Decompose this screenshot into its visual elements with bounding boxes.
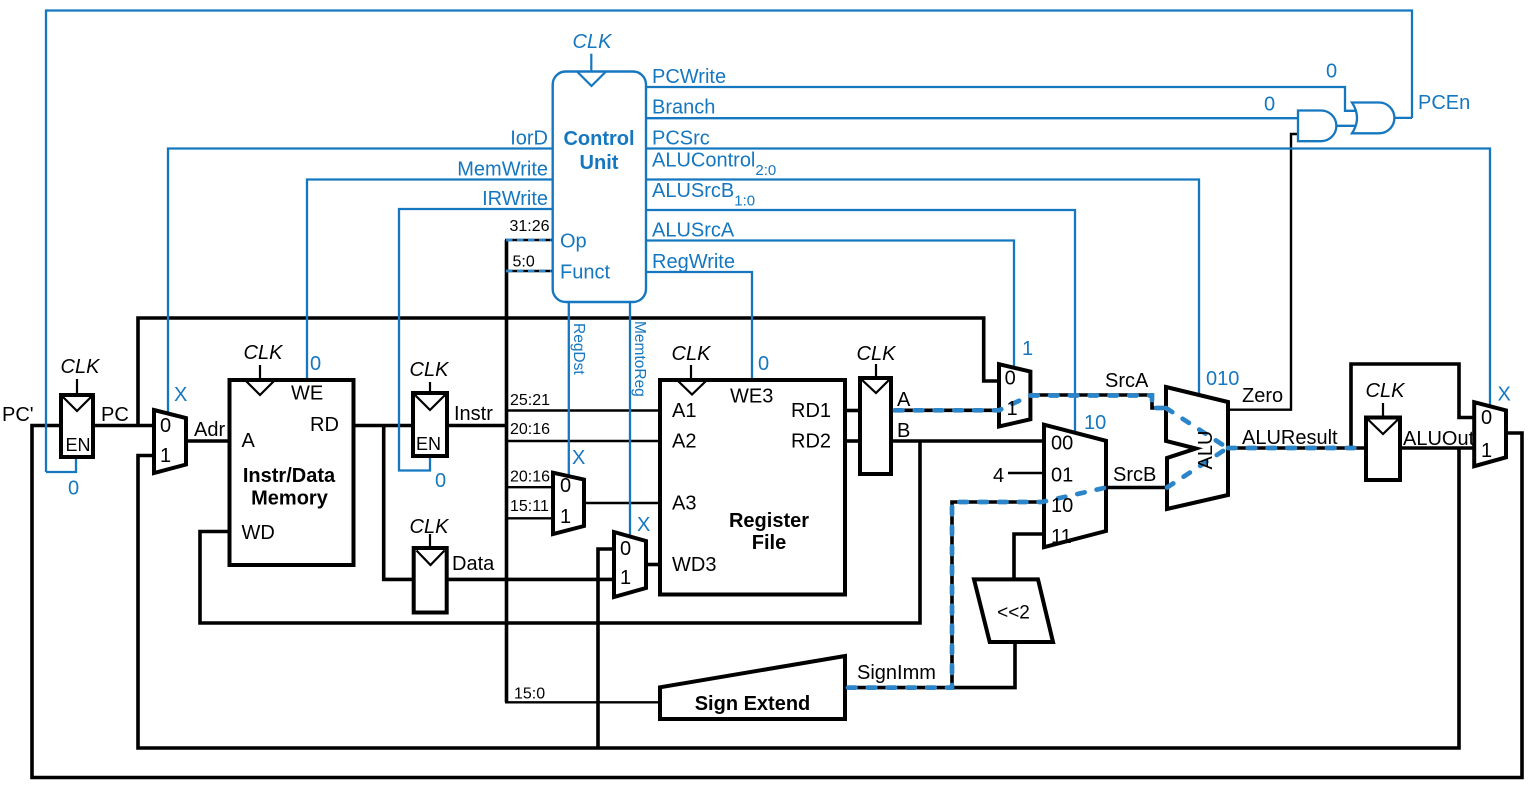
svg-text:0: 0 bbox=[310, 353, 321, 375]
svg-text:Instr/Data: Instr/Data bbox=[243, 465, 336, 487]
svg-text:Register: Register bbox=[729, 510, 809, 532]
svg-text:RD1: RD1 bbox=[791, 400, 831, 422]
svg-text:PCWrite: PCWrite bbox=[652, 66, 726, 88]
svg-text:Branch: Branch bbox=[652, 97, 715, 119]
svg-text:Memory: Memory bbox=[251, 488, 329, 510]
svg-text:CLK: CLK bbox=[573, 31, 614, 53]
svg-text:1: 1 bbox=[560, 506, 571, 528]
svg-text:X: X bbox=[1498, 384, 1511, 406]
svg-text:PCEn: PCEn bbox=[1418, 92, 1470, 114]
svg-text:A2: A2 bbox=[672, 431, 696, 453]
svg-text:1: 1 bbox=[1481, 440, 1492, 462]
svg-text:Control: Control bbox=[563, 128, 634, 150]
svg-text:SignImm: SignImm bbox=[857, 662, 936, 684]
svg-text:20:16: 20:16 bbox=[510, 469, 550, 486]
svg-text:SrcA: SrcA bbox=[1105, 370, 1149, 392]
svg-text:Unit: Unit bbox=[580, 152, 619, 174]
svg-text:X: X bbox=[174, 384, 187, 406]
svg-text:0: 0 bbox=[435, 470, 446, 492]
svg-text:WE: WE bbox=[291, 383, 323, 405]
svg-text:1: 1 bbox=[1022, 338, 1033, 360]
svg-text:Zero: Zero bbox=[1242, 385, 1283, 407]
svg-text:X: X bbox=[637, 514, 650, 536]
svg-text:1: 1 bbox=[620, 567, 631, 589]
svg-text:IorD: IorD bbox=[510, 128, 548, 150]
svg-text:<<2: <<2 bbox=[997, 603, 1030, 624]
svg-text:A3: A3 bbox=[672, 493, 696, 515]
svg-text:20:16: 20:16 bbox=[510, 421, 550, 438]
svg-text:15:11: 15:11 bbox=[510, 498, 549, 515]
svg-text:RD2: RD2 bbox=[791, 431, 831, 453]
svg-text:A1: A1 bbox=[672, 400, 696, 422]
svg-text:Data: Data bbox=[452, 553, 495, 575]
svg-text:RegDst: RegDst bbox=[570, 323, 587, 375]
svg-text:4: 4 bbox=[993, 465, 1004, 487]
svg-text:WD3: WD3 bbox=[672, 554, 716, 576]
svg-text:Op: Op bbox=[560, 231, 587, 253]
svg-text:31:26: 31:26 bbox=[510, 218, 550, 235]
svg-text:25:21: 25:21 bbox=[510, 392, 550, 409]
svg-text:ALUResult: ALUResult bbox=[1242, 427, 1338, 449]
svg-text:0: 0 bbox=[1005, 368, 1016, 390]
svg-text:01: 01 bbox=[1051, 465, 1073, 487]
svg-text:PC: PC bbox=[101, 404, 129, 426]
svg-text:Instr: Instr bbox=[454, 403, 493, 425]
svg-text:CLK: CLK bbox=[410, 516, 451, 538]
svg-text:0: 0 bbox=[68, 478, 79, 500]
svg-text:0: 0 bbox=[620, 538, 631, 560]
svg-text:0: 0 bbox=[1326, 61, 1337, 83]
svg-text:Sign Extend: Sign Extend bbox=[695, 693, 811, 715]
svg-text:MemtoReg: MemtoReg bbox=[631, 321, 648, 397]
svg-text:1: 1 bbox=[1007, 398, 1018, 420]
svg-text:RegWrite: RegWrite bbox=[652, 251, 735, 273]
svg-text:11: 11 bbox=[1051, 526, 1072, 548]
svg-text:00: 00 bbox=[1051, 433, 1073, 455]
svg-text:ALU: ALU bbox=[1195, 431, 1217, 470]
svg-text:CLK: CLK bbox=[857, 343, 898, 365]
svg-text:EN: EN bbox=[416, 434, 441, 454]
svg-text:CLK: CLK bbox=[1366, 380, 1407, 402]
svg-text:10: 10 bbox=[1084, 412, 1106, 434]
svg-text:File: File bbox=[752, 532, 786, 554]
svg-text:CLK: CLK bbox=[61, 356, 102, 378]
svg-text:5:0: 5:0 bbox=[513, 254, 535, 271]
svg-text:CLK: CLK bbox=[410, 359, 451, 381]
svg-text:ALUSrcA: ALUSrcA bbox=[652, 220, 735, 242]
svg-text:A: A bbox=[242, 430, 256, 452]
svg-text:0: 0 bbox=[560, 475, 571, 497]
svg-text:MemWrite: MemWrite bbox=[457, 159, 548, 181]
svg-text:1: 1 bbox=[160, 445, 171, 467]
svg-text:10: 10 bbox=[1051, 495, 1073, 517]
svg-text:SrcB: SrcB bbox=[1113, 464, 1156, 486]
svg-text:PC': PC' bbox=[2, 404, 34, 426]
svg-text:WE3: WE3 bbox=[730, 386, 773, 408]
svg-text:0: 0 bbox=[160, 415, 171, 437]
svg-text:ALUOut: ALUOut bbox=[1403, 428, 1475, 450]
svg-text:0: 0 bbox=[1481, 407, 1492, 429]
svg-text:RD: RD bbox=[310, 414, 339, 436]
svg-text:PCSrc: PCSrc bbox=[652, 128, 710, 150]
svg-text:A: A bbox=[897, 389, 911, 411]
svg-text:X: X bbox=[572, 447, 585, 469]
svg-text:WD: WD bbox=[242, 522, 275, 544]
svg-text:0: 0 bbox=[758, 353, 769, 375]
svg-text:15:0: 15:0 bbox=[514, 686, 545, 703]
svg-text:CLK: CLK bbox=[672, 343, 713, 365]
svg-text:Funct: Funct bbox=[560, 262, 610, 284]
svg-text:010: 010 bbox=[1206, 368, 1239, 390]
svg-text:CLK: CLK bbox=[244, 342, 285, 364]
svg-text:Adr: Adr bbox=[194, 419, 225, 441]
svg-text:IRWrite: IRWrite bbox=[482, 188, 548, 210]
svg-text:0: 0 bbox=[1264, 94, 1275, 116]
svg-text:EN: EN bbox=[66, 435, 91, 455]
svg-text:B: B bbox=[897, 420, 910, 442]
